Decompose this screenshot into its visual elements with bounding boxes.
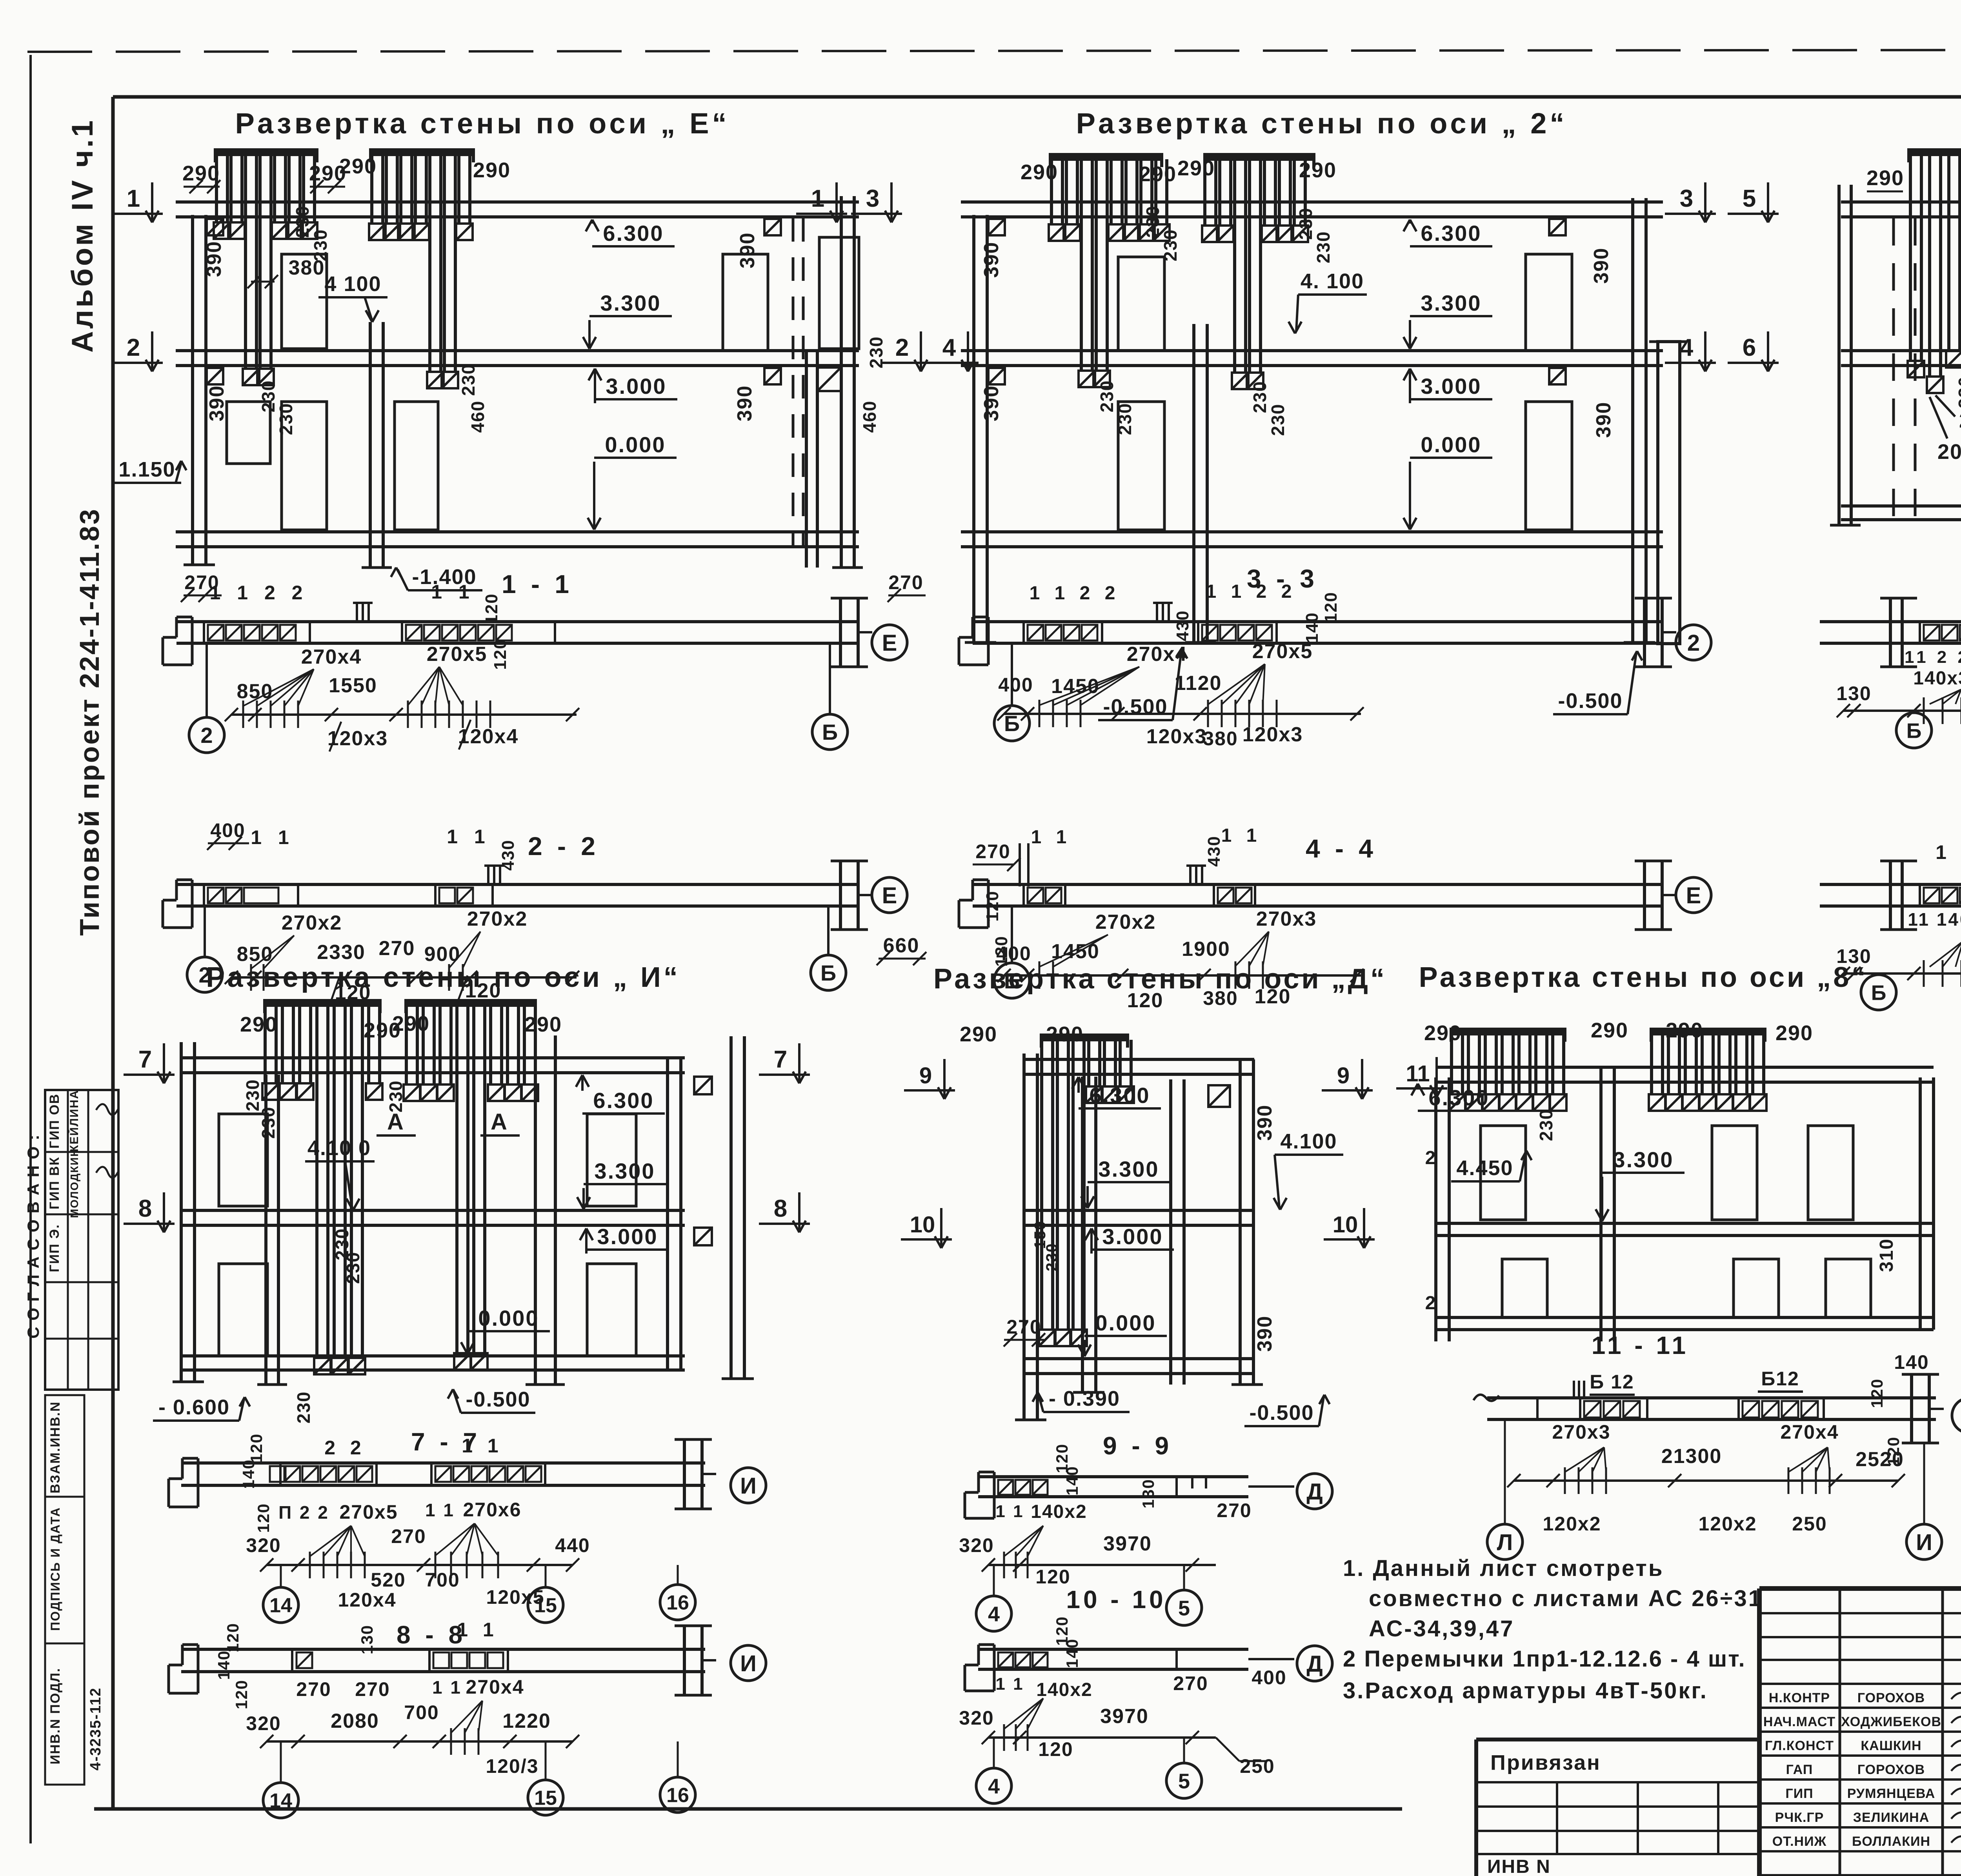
svg-text:140: 140 [1063,1466,1081,1496]
svg-text:Привязан: Привязан [1490,1751,1601,1774]
svg-text:1220: 1220 [502,1710,551,1732]
svg-text:120: 120 [1868,1378,1886,1408]
svg-text:120: 120 [232,1679,251,1709]
svg-text:АС-34,39,47: АС-34,39,47 [1369,1616,1514,1641]
svg-text:6.300: 6.300 [593,1088,654,1113]
svg-text:230: 230 [1955,376,1961,409]
svg-text:3.Расход арматуры 4вТ-50кг.: 3.Расход арматуры 4вТ-50кг. [1343,1678,1708,1703]
svg-text:120: 120 [224,1623,242,1652]
svg-text:230: 230 [1097,380,1117,413]
svg-text:5: 5 [1178,1596,1190,1620]
svg-text:270х3: 270х3 [1552,1421,1610,1443]
svg-text:Е: Е [882,630,897,656]
svg-text:1450: 1450 [1051,940,1100,963]
svg-text:230: 230 [1536,1109,1556,1141]
svg-text:6.300: 6.300 [1421,221,1481,246]
svg-text:270х4: 270х4 [1127,643,1188,666]
svg-text:Развертка стены по оси „ 2“: Развертка стены по оси „ 2“ [1076,107,1568,140]
svg-text:120х3: 120х3 [1242,723,1303,746]
svg-text:БОЛЛАКИН: БОЛЛАКИН [1852,1834,1930,1849]
svg-text:230: 230 [1043,1243,1061,1272]
svg-text:ГИП ВК: ГИП ВК [47,1157,62,1210]
svg-text:270х2: 270х2 [1095,911,1156,933]
svg-text:850: 850 [237,680,273,703]
svg-text:230: 230 [1160,229,1181,262]
svg-text:700: 700 [425,1569,460,1591]
svg-text:270х5: 270х5 [339,1501,398,1523]
svg-text:320: 320 [246,1534,281,1556]
svg-text:120: 120 [1038,1738,1073,1760]
svg-text:ВЗАМ.ИНВ.N: ВЗАМ.ИНВ.N [48,1401,63,1493]
svg-text:290: 290 [240,1013,278,1036]
svg-text:6: 6 [1743,334,1756,361]
svg-text:6.300: 6.300 [603,221,664,246]
svg-text:Е: Е [1686,883,1701,908]
svg-text:1 - 1: 1 - 1 [502,570,573,599]
svg-text:140х2: 140х2 [1031,1501,1087,1522]
svg-text:270х3: 270х3 [1256,908,1317,930]
svg-text:1 1: 1 1 [995,1674,1024,1694]
svg-text:120: 120 [983,890,1002,921]
svg-text:1: 1 [1936,841,1947,863]
svg-text:ОТ.НИЖ: ОТ.НИЖ [1772,1834,1827,1849]
svg-text:270: 270 [296,1678,331,1700]
svg-text:230: 230 [293,1391,314,1424]
svg-text:1: 1 [811,185,824,212]
svg-text:230: 230 [1268,404,1288,436]
svg-text:310: 310 [1876,1238,1897,1272]
svg-text:С О Г Л А С О В А Н О :: С О Г Л А С О В А Н О : [24,1134,42,1339]
svg-text:2520: 2520 [1855,1448,1904,1471]
svg-text:1 1: 1 1 [447,826,491,848]
svg-text:320: 320 [959,1707,994,1729]
svg-text:2 - 2: 2 - 2 [528,832,599,861]
svg-text:1 1: 1 1 [462,1435,503,1457]
svg-text:120х2: 120х2 [1543,1513,1601,1535]
svg-text:270х4: 270х4 [1780,1421,1839,1443]
svg-text:4.100: 4.100 [1280,1130,1337,1153]
svg-text:8: 8 [774,1195,787,1222]
svg-text:1450: 1450 [1051,675,1100,698]
svg-text:Типовой проект 224-1-411.83: Типовой проект 224-1-411.83 [74,508,105,936]
svg-text:390: 390 [980,385,1003,422]
svg-text:3.300: 3.300 [1098,1157,1159,1181]
svg-text:270х5: 270х5 [1252,640,1313,663]
svg-text:ПОДПИСЬ И ДАТА: ПОДПИСЬ И ДАТА [48,1507,62,1631]
svg-text:3.300: 3.300 [600,291,661,315]
svg-text:8 - 8: 8 - 8 [397,1621,466,1649]
svg-text:3.000: 3.000 [597,1224,658,1249]
svg-text:230: 230 [292,206,313,238]
svg-text:4: 4 [988,1602,1000,1626]
svg-text:270х5: 270х5 [427,643,488,666]
svg-text:КАШКИН: КАШКИН [1861,1738,1921,1753]
svg-text:390: 390 [733,385,756,422]
svg-text:290: 290 [1021,160,1058,184]
svg-text:4. 100: 4. 100 [1301,269,1364,293]
svg-text:ЗЕЛИКИНА: ЗЕЛИКИНА [1853,1810,1930,1825]
svg-text:Б: Б [1004,711,1020,736]
svg-text:И: И [740,1473,757,1499]
svg-text:3: 3 [866,185,879,212]
svg-text:270х4: 270х4 [466,1676,524,1698]
svg-text:3.000: 3.000 [1421,374,1481,398]
svg-text:2: 2 [200,723,213,748]
svg-text:14: 14 [269,1594,292,1617]
svg-text:140х3: 140х3 [1913,668,1961,689]
svg-text:120: 120 [1321,591,1341,622]
svg-text:2: 2 [895,334,909,361]
svg-text:1 1: 1 1 [432,1677,462,1698]
svg-text:3.300: 3.300 [1613,1147,1674,1172]
svg-text:4: 4 [988,1774,1000,1798]
svg-text:Е: Е [882,883,897,908]
svg-text:140: 140 [1894,1351,1929,1373]
svg-text:4-3235-112: 4-3235-112 [87,1687,104,1770]
svg-text:2: 2 [1687,630,1700,656]
svg-text:230: 230 [458,364,478,396]
svg-text:5: 5 [1178,1769,1190,1793]
svg-text:П 2 2: П 2 2 [278,1502,329,1523]
svg-text:120: 120 [247,1433,266,1463]
svg-text:4.10 0: 4.10 0 [307,1136,371,1160]
svg-text:230: 230 [343,1252,363,1284]
svg-text:290: 290 [1177,156,1215,180]
svg-text:2: 2 [1425,1148,1437,1168]
svg-text:120: 120 [254,1503,273,1533]
svg-text:120х4: 120х4 [338,1589,396,1611]
svg-text:400: 400 [996,943,1031,964]
svg-text:2: 2 [127,334,140,361]
svg-text:130: 130 [1139,1479,1157,1508]
svg-text:Б 12: Б 12 [1590,1371,1634,1393]
svg-text:270х4: 270х4 [301,646,362,668]
svg-text:120: 120 [491,639,510,670]
svg-text:140: 140 [215,1650,233,1680]
svg-text:270: 270 [1006,1316,1041,1338]
svg-text:совместно с листами АС 26÷31: совместно с листами АС 26÷31 [1369,1586,1763,1611]
svg-text:Развертка стены по оси „8“: Развертка стены по оси „8“ [1419,962,1868,993]
svg-text:120х3: 120х3 [327,727,388,750]
svg-text:430: 430 [498,839,518,870]
svg-text:140: 140 [1063,1638,1081,1668]
svg-text:Развертка стены по оси „Д“: Развертка стены по оси „Д“ [933,963,1387,995]
svg-text:14: 14 [269,1790,292,1812]
svg-text:Б: Б [820,961,836,985]
svg-text:11 140х3: 11 140х3 [1908,909,1961,930]
svg-text:КЕЙЛИНА: КЕЙЛИНА [67,1090,81,1152]
svg-text:1. Данный лист смотреть: 1. Данный лист смотреть [1343,1556,1664,1581]
svg-text:440: 440 [555,1534,590,1556]
svg-text:1900: 1900 [1182,938,1230,961]
svg-text:270: 270 [1173,1672,1208,1694]
svg-text:2080: 2080 [331,1710,379,1732]
svg-text:390: 390 [1590,247,1613,284]
svg-text:1 1: 1 1 [431,581,475,603]
svg-text:Д: Д [1306,1479,1322,1505]
svg-text:ГИП ОВ: ГИП ОВ [47,1094,62,1149]
svg-text:16: 16 [666,1784,689,1807]
svg-text:380: 380 [289,257,325,279]
svg-text:520: 520 [371,1569,406,1591]
svg-text:15: 15 [534,1594,557,1617]
svg-text:290: 290 [960,1023,997,1046]
svg-text:1 1: 1 1 [1221,825,1262,846]
svg-text:250: 250 [1792,1513,1827,1535]
svg-text:230: 230 [386,1080,406,1113]
svg-text:270: 270 [355,1678,390,1700]
svg-text:290: 290 [524,1013,562,1036]
svg-text:16: 16 [666,1592,689,1614]
svg-text:9: 9 [919,1063,932,1088]
svg-text:230: 230 [1250,381,1270,413]
svg-text:270: 270 [1217,1499,1252,1521]
svg-text:230: 230 [258,1106,278,1139]
svg-text:380: 380 [1203,728,1238,750]
svg-text:3970: 3970 [1100,1705,1149,1728]
svg-text:120х2: 120х2 [1698,1513,1757,1535]
svg-text:390: 390 [1253,1316,1276,1352]
svg-text:8: 8 [138,1195,152,1222]
svg-text:1 1: 1 1 [1031,827,1071,848]
svg-text:320: 320 [959,1534,994,1556]
svg-text:11 - 11: 11 - 11 [1592,1331,1689,1359]
svg-text:290: 290 [1866,166,1904,190]
svg-text:400: 400 [998,674,1033,696]
svg-text:4: 4 [942,334,956,361]
svg-text:0.000: 0.000 [478,1306,539,1330]
svg-text:2 отв: 2 отв [1959,409,1961,432]
svg-text:Б: Б [1906,719,1922,742]
svg-text:230: 230 [1313,231,1333,264]
svg-text:6.300: 6.300 [1089,1083,1150,1108]
svg-text:3: 3 [1680,185,1693,212]
svg-text:290: 290 [473,158,511,182]
svg-text:1 1 2 2: 1 1 2 2 [1206,581,1297,602]
svg-text:3.000: 3.000 [606,374,666,398]
svg-text:290: 290 [1046,1023,1084,1046]
svg-text:А: А [387,1109,404,1135]
svg-text:15: 15 [534,1787,557,1810]
svg-text:2 2: 2 2 [324,1437,366,1459]
svg-text:0.000: 0.000 [605,432,666,457]
svg-text:Альбом IV ч.1: Альбом IV ч.1 [66,118,99,353]
svg-text:ХОДЖИБЕКОВ: ХОДЖИБЕКОВ [1841,1714,1941,1729]
svg-text:390: 390 [206,385,228,422]
svg-text:1.150: 1.150 [118,458,175,481]
svg-text:390: 390 [203,241,226,277]
svg-text:ГИП Э.: ГИП Э. [47,1224,62,1272]
svg-text:270х6: 270х6 [463,1499,521,1521]
svg-text:1 1 2 2: 1 1 2 2 [1030,583,1120,604]
svg-text:140х2: 140х2 [1036,1679,1092,1700]
svg-text:290: 290 [339,155,377,178]
svg-text:4: 4 [1680,334,1694,361]
svg-text:0.000: 0.000 [1095,1310,1156,1335]
svg-text:120: 120 [482,593,501,624]
svg-text:0.000: 0.000 [1421,432,1481,457]
svg-text:МОЛОДКИН: МОЛОДКИН [68,1148,80,1218]
svg-text:10: 10 [910,1212,935,1237]
svg-text:250: 250 [1240,1755,1275,1777]
svg-text:-0.500: -0.500 [466,1388,530,1411]
svg-text:Развертка стены по оси „ Е“: Развертка стены по оси „ Е“ [235,107,730,140]
svg-text:270: 270 [379,937,415,960]
svg-text:270: 270 [888,571,923,593]
svg-text:390: 390 [1592,402,1615,438]
svg-text:Н.КОНТР: Н.КОНТР [1769,1690,1830,1705]
svg-text:290: 290 [1591,1019,1628,1042]
svg-text:4 100: 4 100 [324,272,381,296]
svg-text:7: 7 [774,1046,787,1073]
svg-text:7: 7 [138,1046,152,1073]
svg-text:И: И [1916,1530,1932,1555]
svg-text:1550: 1550 [329,674,377,697]
svg-text:400: 400 [1252,1667,1286,1689]
svg-text:460: 460 [859,400,880,433]
svg-text:290: 290 [1775,1021,1813,1045]
svg-text:140: 140 [239,1459,258,1489]
svg-text:Б12: Б12 [1761,1368,1799,1390]
svg-text:270: 270 [975,841,1010,862]
svg-text:200х450: 200х450 [1937,440,1961,464]
svg-text:РЧК.ГР: РЧК.ГР [1775,1810,1824,1825]
svg-text:140: 140 [1302,612,1322,643]
svg-text:290: 290 [1424,1021,1462,1045]
svg-text:Л: Л [1497,1530,1513,1555]
svg-text:120/3: 120/3 [486,1755,538,1777]
svg-text:2330: 2330 [317,941,366,964]
svg-text:ГОРОХОВ: ГОРОХОВ [1857,1762,1925,1777]
svg-text:Б: Б [1871,981,1886,1004]
svg-text:2: 2 [1425,1293,1437,1314]
svg-text:390: 390 [736,232,759,269]
svg-text:1 1: 1 1 [251,826,295,848]
svg-text:Д: Д [1306,1651,1322,1677]
svg-text:1120: 1120 [1175,672,1222,695]
svg-text:290: 290 [1299,158,1337,182]
svg-text:3970: 3970 [1103,1532,1152,1555]
svg-text:270х2: 270х2 [282,912,342,934]
svg-text:230: 230 [276,403,296,435]
svg-text:1 1 2 2: 1 1 2 2 [210,582,308,604]
svg-text:9 - 9: 9 - 9 [1103,1432,1173,1460]
svg-text:10: 10 [1333,1212,1358,1237]
svg-text:3.300: 3.300 [1421,291,1481,315]
svg-text:1 1: 1 1 [457,1619,498,1641]
svg-text:Б: Б [822,720,838,744]
svg-text:390: 390 [1253,1104,1276,1141]
svg-text:ИНВ.N ПОДЛ.: ИНВ.N ПОДЛ. [48,1668,63,1765]
svg-text:1 1: 1 1 [425,1500,455,1520]
svg-text:1 1: 1 1 [995,1502,1024,1521]
svg-text:3.000: 3.000 [1102,1224,1163,1249]
svg-text:А: А [491,1109,508,1135]
svg-text:2 Перемычки 1пр1-12.12.6 - 4 ш: 2 Перемычки 1пр1-12.12.6 - 4 шт. [1343,1646,1746,1672]
svg-text:430: 430 [1173,610,1192,641]
svg-text:И: И [740,1651,757,1676]
svg-text:- 0.600: - 0.600 [158,1396,230,1419]
svg-text:120: 120 [1035,1566,1070,1588]
svg-text:НАЧ.МАСТ: НАЧ.МАСТ [1763,1714,1835,1729]
svg-text:5: 5 [1743,185,1756,212]
svg-text:ГИП: ГИП [1785,1786,1813,1801]
svg-text:270х2: 270х2 [467,908,528,930]
svg-text:290: 290 [392,1012,430,1035]
svg-text:460: 460 [468,400,488,433]
svg-text:ИНВ N: ИНВ N [1487,1856,1551,1876]
svg-text:11: 11 [1406,1061,1430,1086]
svg-text:1: 1 [127,185,140,212]
svg-text:ГАП: ГАП [1786,1762,1813,1777]
svg-text:11 2 2: 11 2 2 [1905,648,1961,667]
svg-text:РУМЯНЦЕВА: РУМЯНЦЕВА [1847,1786,1936,1801]
svg-text:120х3: 120х3 [1146,725,1207,748]
svg-text:3.300: 3.300 [594,1159,655,1183]
svg-text:270: 270 [391,1525,426,1547]
svg-text:-0.500: -0.500 [1249,1401,1314,1425]
svg-text:230: 230 [1115,403,1135,435]
svg-text:700: 700 [404,1701,439,1723]
svg-text:130: 130 [1836,682,1871,704]
svg-text:9: 9 [1337,1063,1350,1088]
svg-text:10 - 10: 10 - 10 [1066,1585,1166,1614]
svg-text:-0.500: -0.500 [1558,689,1623,713]
svg-text:Развертка стены по оси „ И“: Развертка стены по оси „ И“ [206,962,680,993]
svg-text:390: 390 [980,242,1003,278]
svg-text:130: 130 [358,1625,376,1654]
svg-text:290: 290 [1666,1019,1703,1042]
svg-text:- 0.390: - 0.390 [1049,1387,1120,1410]
svg-text:290: 290 [1139,162,1177,186]
svg-text:4 - 4: 4 - 4 [1306,834,1377,863]
svg-text:ГЛ.КОНСТ: ГЛ.КОНСТ [1765,1738,1834,1753]
svg-text:ГОРОХОВ: ГОРОХОВ [1857,1690,1925,1705]
svg-text:320: 320 [246,1712,281,1734]
svg-text:21300: 21300 [1661,1445,1722,1468]
svg-text:4.450: 4.450 [1456,1156,1513,1180]
